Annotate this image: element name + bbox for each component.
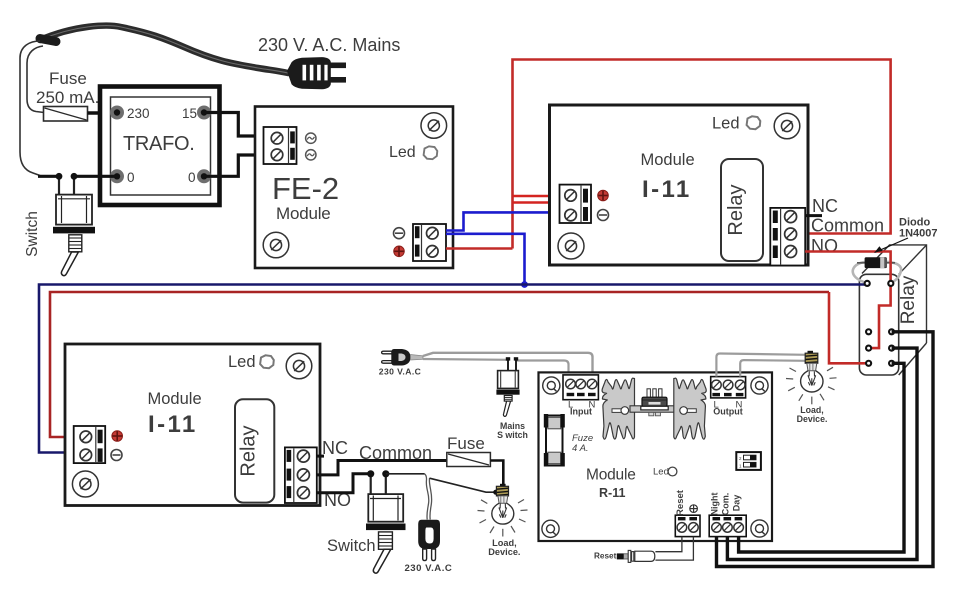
plug P1 mains plug	[288, 58, 347, 89]
svg-text:NC: NC	[322, 438, 348, 458]
svg-text:250 mA.: 250 mA.	[36, 88, 99, 107]
svg-text:FE-2: FE-2	[272, 171, 339, 206]
heatsink right half	[674, 378, 706, 439]
wire: red top loop from FE-2 supply to relay common (Common rail)	[513, 60, 891, 249]
plug P3 (230 V.A.C bottom)	[418, 520, 440, 561]
svg-text:1N4007: 1N4007	[899, 228, 938, 240]
terminal: TRAFO 15	[197, 106, 211, 120]
symbol: minus mark (FE-2 out)	[394, 228, 405, 239]
svg-text:I-11: I-11	[148, 411, 198, 438]
relay pin contact r1 left	[865, 328, 872, 335]
wire: mains switch pin2 to R-11 input L (gray)	[516, 361, 569, 377]
wire: TRAFO 0 to FE-2 input bottom	[204, 155, 264, 176]
wire: red pair into I-11 module (top)	[513, 196, 560, 203]
wire: fuse to load lamp	[490, 461, 503, 486]
terminal: TRAFO 230	[110, 106, 124, 120]
junction: blue bus tap	[521, 281, 528, 288]
led D3 (R-11)	[668, 467, 677, 476]
module I-11 (bottom left) board	[65, 344, 320, 506]
svg-text:R-11: R-11	[599, 486, 625, 500]
transistor Q1 on heatsink	[641, 389, 668, 416]
wire: plug conductor to mains switch pin1 (gray)	[423, 358, 508, 361]
lamp LP2 rays	[786, 367, 837, 404]
led D1 (I-11 bottom)	[260, 355, 274, 368]
svg-text:I-11: I-11	[642, 176, 692, 203]
junction: lamp left terminal	[493, 490, 498, 495]
wire: switch to plug conductor A	[386, 473, 425, 475]
wire: plug conductor B to lamp	[430, 478, 497, 492]
symbol: earth plus (reset)	[690, 505, 698, 513]
terminal block: FE-2 output	[413, 224, 446, 261]
mounting hole I-11 top right	[774, 113, 800, 139]
wire: red relay coil to contact row 2	[869, 283, 891, 348]
mounting hole I-11 bottom module top right	[286, 353, 312, 379]
mounting hole R-11 bottom left	[542, 520, 559, 537]
svg-text:Relay: Relay	[238, 425, 260, 476]
symbol: AC mark bottom	[306, 150, 316, 160]
svg-text:Output: Output	[713, 407, 743, 417]
svg-text:230 V.A.C: 230 V.A.C	[404, 563, 452, 574]
terminal block: I-11 top relay out (NC/Common/NO)	[770, 208, 805, 266]
module I-11 (top right) board	[550, 105, 809, 265]
lamp LP1 rays	[478, 500, 528, 537]
svg-text:Switch: Switch	[327, 537, 376, 555]
mounting hole R-11 top left	[543, 377, 560, 394]
terminal block: R-11 Input	[563, 375, 598, 400]
svg-text:S witch: S witch	[497, 430, 528, 440]
svg-text:Input: Input	[570, 407, 592, 417]
wire: red NO to relay coil	[805, 252, 890, 284]
switch SW3 (mains switch)	[496, 357, 519, 416]
terminal block: I-11 top input	[560, 185, 592, 223]
wire: mains cord from plug to fuse/switch	[40, 26, 288, 73]
svg-text:Com.: Com.	[721, 493, 731, 516]
wire: red bus rail drop to relay coil return	[829, 292, 869, 363]
switch SW2 (load switch)	[366, 470, 406, 573]
wire: relay coil loop (gray) around diode	[853, 262, 901, 283]
led D1 (I-11 top)	[747, 116, 761, 129]
svg-text:Common: Common	[811, 216, 884, 236]
relay RL1 external body	[859, 245, 926, 375]
svg-text:Module: Module	[148, 390, 202, 408]
svg-text:Device.: Device.	[797, 414, 828, 424]
svg-text:Led: Led	[653, 467, 669, 478]
wire: Night to relay contact (black)	[717, 332, 934, 567]
svg-text:Reset: Reset	[594, 552, 617, 561]
lamp LP1 (load device, bottom)	[492, 484, 514, 524]
terminal block: I-11 bottom relay out	[285, 447, 317, 503]
terminal block: I-11 bottom input	[74, 426, 106, 463]
reset button SW4	[617, 550, 655, 562]
svg-text:Module: Module	[586, 467, 636, 484]
wire: plug cable (bottom plug)	[425, 474, 432, 520]
led D1 (FE-2)	[424, 146, 438, 159]
terminal block: R-11 Night/Com/Day	[709, 515, 746, 536]
svg-text:NC: NC	[812, 196, 838, 216]
symbol: minus mark (I-11 top)	[598, 210, 609, 221]
svg-text:Module: Module	[276, 204, 331, 223]
symbol: AC mark top	[306, 133, 316, 143]
svg-text:Fuse: Fuse	[447, 434, 485, 453]
wire: Com to relay contact (black)	[727, 348, 917, 559]
wire: Common to fuse (bottom circuit)	[317, 461, 447, 475]
wire: NC stub (top module)	[805, 214, 822, 217]
wire: blue bus rail (navy)	[39, 285, 867, 453]
wire: red bus rail to bottom I-11	[50, 292, 829, 437]
label: Load, Device. (bottom)	[488, 538, 520, 557]
relay block (I-11 bottom)	[235, 399, 274, 502]
mounting hole I-11 top module bottom left	[558, 233, 584, 259]
wire: red FE-2 output to vertical riser	[446, 247, 513, 250]
fuse holder F3 (R-11)	[544, 414, 565, 467]
wire: switch to left conductor	[38, 175, 59, 178]
heatsink left half	[602, 378, 634, 439]
FE-2 module board	[255, 107, 453, 269]
svg-text:0: 0	[188, 170, 196, 185]
diode D2 1N4007	[857, 257, 895, 268]
label: Fuze 4 A.	[572, 433, 593, 454]
mounting hole FE-2 top right	[421, 113, 447, 139]
svg-text:Relay: Relay	[898, 275, 919, 324]
relay pin contact r1 right	[888, 328, 895, 335]
fuse F2 (bottom circuit)	[447, 453, 491, 467]
fuse F1 250mA	[44, 107, 88, 122]
wire: TRAFO 15 to FE-2 input top	[204, 113, 264, 137]
svg-text:Module: Module	[641, 151, 695, 169]
symbol: minus mark (I-11 bottom)	[111, 450, 122, 461]
wire: blue FE-2 output drop to blue bus	[446, 234, 525, 285]
terminal block: R-11 Reset	[675, 515, 700, 536]
mounting hole R-11 bottom right	[751, 520, 768, 537]
wire: R-11 Output N to lamp (gray)	[740, 360, 806, 376]
relay block (I-11 top)	[721, 159, 763, 261]
DIP switch S1	[736, 452, 761, 470]
wire: switch to TRAFO 0	[74, 175, 117, 178]
svg-text:Night: Night	[710, 493, 720, 516]
terminal: TRAFO 0 right	[197, 169, 211, 183]
svg-text:Device.: Device.	[488, 547, 520, 557]
svg-text:Relay: Relay	[725, 184, 747, 235]
svg-text:Led: Led	[712, 115, 740, 133]
label: Fuse 250 mA.	[36, 69, 99, 107]
lamp LP2 (load device, right)	[801, 351, 823, 392]
wire: reset terminal 1 to button	[655, 537, 682, 552]
relay pin contact r3 left	[865, 360, 872, 367]
switch SW1 (primary side toggle switch)	[53, 173, 95, 276]
svg-text:15: 15	[182, 106, 197, 121]
symbol: plus mark red (I-11 top)	[598, 190, 609, 201]
label: Mains Switch	[497, 421, 528, 440]
svg-text:Day: Day	[732, 495, 742, 512]
terminal block: R-11 Output	[711, 377, 746, 398]
svg-text:TRAFO.: TRAFO.	[123, 133, 195, 155]
svg-text:230 V. A.C. Mains: 230 V. A.C. Mains	[258, 35, 400, 55]
relay pin contact r2 right	[888, 345, 895, 352]
svg-text:Fuse: Fuse	[49, 69, 87, 88]
label: Load, Device. (right)	[797, 405, 828, 424]
transformer TRAFO box	[100, 87, 220, 206]
relay pin contact r2 left	[865, 345, 872, 352]
svg-text:Led: Led	[389, 144, 416, 161]
svg-text:0: 0	[127, 170, 135, 185]
svg-text:Switch: Switch	[24, 211, 41, 257]
wire: Day to relay contact (black)	[739, 363, 904, 552]
wire: plug conductor to R-11 input N (gray)	[423, 353, 593, 376]
callout arrow to diode	[875, 238, 909, 254]
symbol: plus mark red (FE-2 out)	[394, 246, 405, 257]
label: L N Input	[568, 400, 596, 417]
mounting hole I-11 bottom module bottom left	[72, 471, 98, 497]
svg-text:Reset: Reset	[675, 489, 686, 516]
wire: NO to switch (bottom circuit)	[317, 474, 371, 493]
terminal block: FE-2 input	[264, 127, 297, 164]
relay pin coil left	[864, 280, 871, 287]
wire: fuse to TRAFO 230 terminal	[88, 111, 118, 114]
wire: NC stub (bottom module)	[317, 455, 324, 458]
wire: R-11 Output L to lamp (gray)	[716, 354, 806, 377]
symbol: plus mark red (I-11 bottom)	[112, 431, 123, 442]
plug P2 (230 V.A.C to mains switch)	[382, 349, 423, 366]
label: Diodo 1N4007	[899, 217, 938, 240]
svg-text:230 V.A.C: 230 V.A.C	[379, 366, 421, 376]
terminal: TRAFO 0 left	[110, 169, 124, 183]
heatsink center bar	[630, 406, 678, 412]
relay pin coil right	[887, 280, 894, 287]
svg-text:NO: NO	[811, 236, 838, 256]
wire: cord conductor to switch (left thin wire)	[20, 41, 40, 176]
mounting hole FE-2 bottom left	[263, 232, 289, 258]
relay pin contact r3 right	[888, 360, 895, 367]
svg-text:4 A.: 4 A.	[572, 443, 589, 454]
svg-text:230: 230	[127, 106, 150, 121]
module R-11 board	[539, 372, 773, 541]
mounting hole R-11 top right	[751, 377, 768, 394]
label: L N Output	[713, 400, 743, 417]
wire: reset terminal 2 to button	[655, 537, 693, 561]
wire: cord conductor to fuse (inner thin wire)	[27, 46, 44, 113]
wire: blue FE-2 output to I-11 input	[446, 212, 560, 230]
svg-text:Led: Led	[228, 353, 256, 371]
